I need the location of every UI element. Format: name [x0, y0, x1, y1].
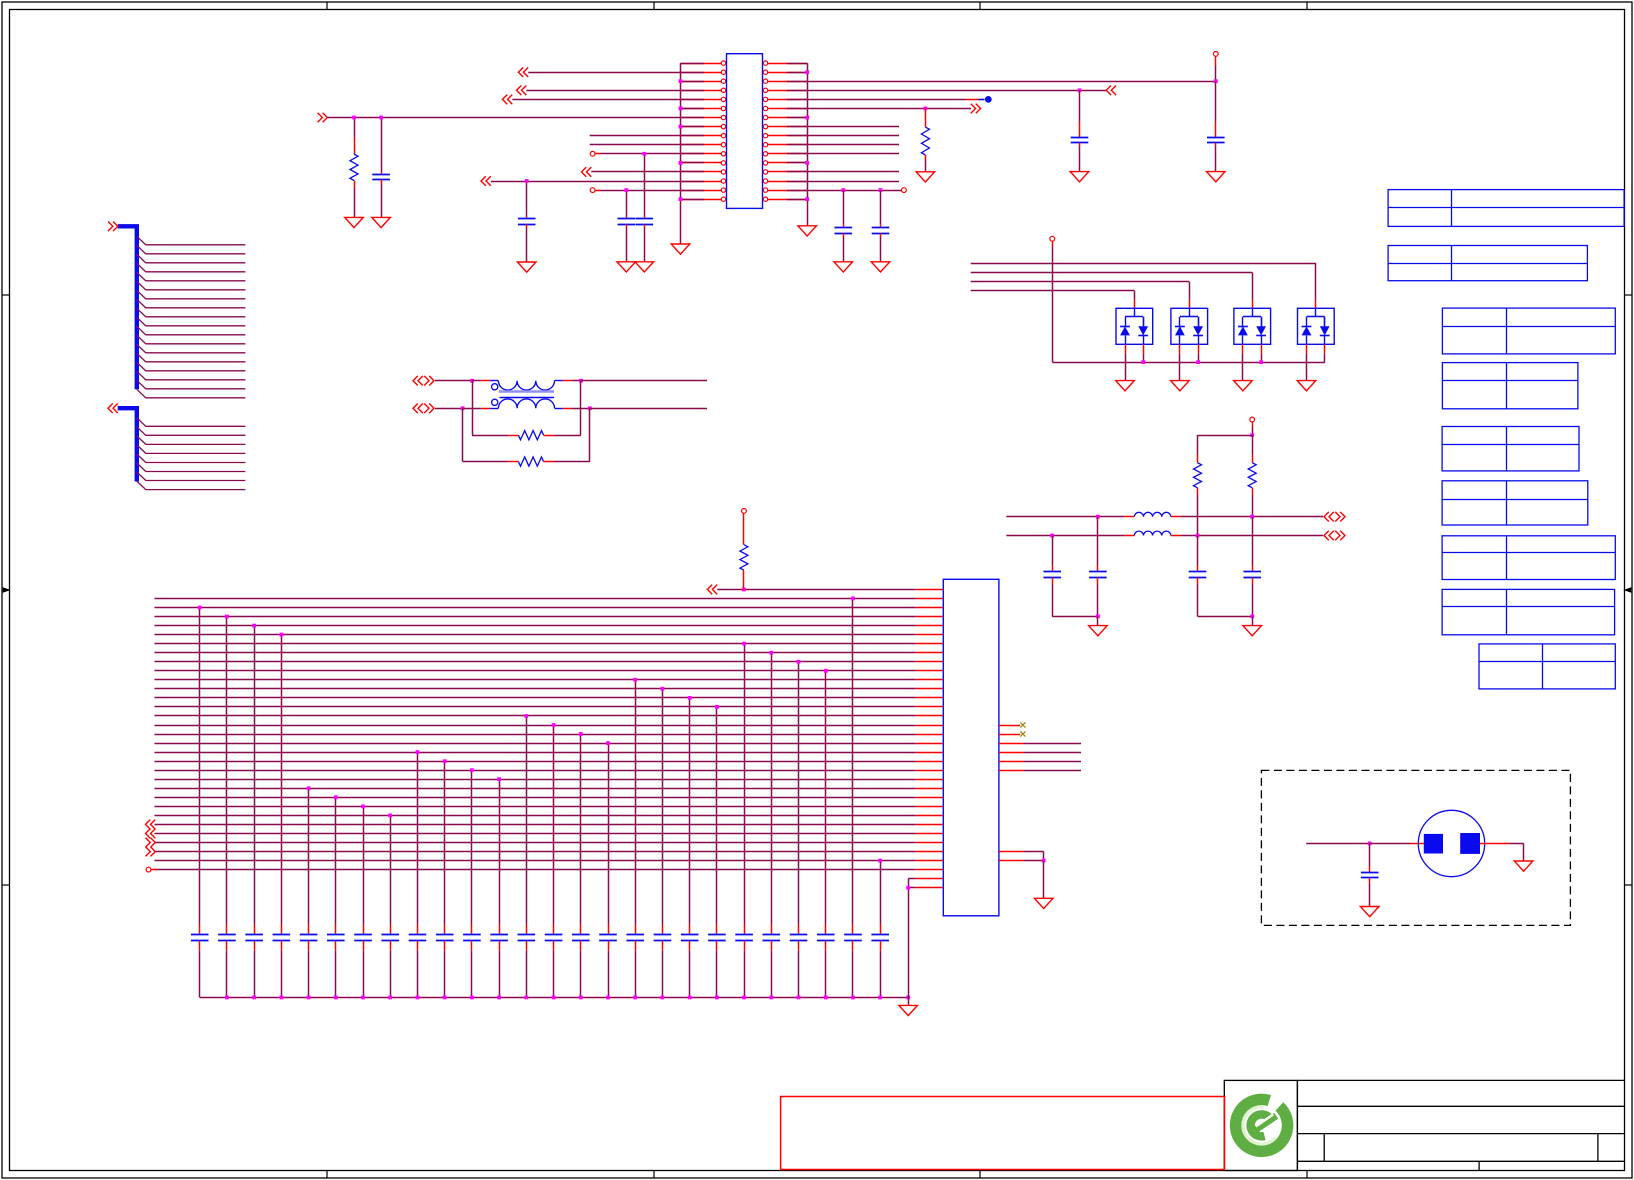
wire column 22	[771, 653, 773, 925]
resistor R7	[743, 513, 745, 544]
junction dot column 5 tap	[307, 786, 311, 790]
wire column 12	[499, 779, 501, 924]
wire column 16	[608, 743, 610, 924]
wire crystal left	[1306, 843, 1370, 845]
port P9 bus B1	[108, 222, 118, 232]
wire U2 row33	[908, 878, 916, 880]
port P7 input right	[1106, 86, 1116, 96]
wire C4 to ground	[644, 228, 646, 262]
pin header circle row15	[590, 188, 595, 193]
wire column 9	[417, 752, 419, 924]
wire column 11	[471, 770, 473, 924]
wire column 23	[798, 662, 800, 925]
ground right of U2	[1034, 898, 1053, 908]
capacitor C8	[880, 190, 882, 224]
pin header circle R7 top	[742, 509, 747, 514]
capacitor CC8	[381, 934, 399, 936]
capacitor C5	[1215, 81, 1217, 121]
transformer T1 primary winding	[490, 380, 498, 382]
transformer T1 phase dot secondary	[492, 399, 498, 405]
ground filter right	[1243, 626, 1262, 636]
port P11 bidir line1	[413, 376, 423, 386]
ground filter left	[1089, 626, 1108, 636]
wire R1 to ground	[354, 188, 356, 217]
wire U2 right outputs	[999, 744, 1081, 771]
wire row3 right long	[807, 81, 1216, 83]
junction dot row4 at C6	[1078, 88, 1082, 92]
wire U2 ground rail	[200, 997, 909, 999]
junction dot row6 at R2	[924, 107, 928, 111]
pin header circle row15 right	[902, 188, 907, 193]
wire U2 right gnd pins	[999, 851, 1024, 853]
wire filter VCC stub	[1252, 422, 1254, 427]
capacitor C3	[626, 190, 628, 215]
capacitor CC5	[300, 934, 318, 936]
pin header circle grid line32	[146, 867, 151, 872]
capacitor CC11	[463, 934, 481, 936]
capacitor CC14	[545, 934, 563, 936]
wire D3 right pin to rail	[1261, 344, 1263, 353]
diode pack D4	[1298, 308, 1335, 344]
junction dots row15 caps	[841, 188, 845, 192]
wire to ground right of U2	[1043, 861, 1045, 899]
wire diode input lines	[971, 263, 1316, 308]
port P3 input	[503, 95, 513, 105]
junction dot column 15 tap	[579, 732, 583, 736]
wire R2 to ground	[925, 160, 927, 172]
junction dot filter left gnd	[1096, 614, 1100, 618]
wire row6 right	[807, 108, 971, 110]
wire column 6	[335, 797, 337, 924]
wire row2 to U1	[528, 72, 704, 74]
capacitor C12	[1252, 517, 1254, 565]
capacitor C2	[526, 181, 528, 215]
wire column 10	[444, 761, 446, 924]
port P18 grid line29	[146, 838, 156, 848]
wire row5 to U1	[512, 99, 704, 101]
dashed option box	[1261, 770, 1570, 925]
junction dot T1 line2 left	[461, 406, 465, 410]
junction dot crystal	[1368, 842, 1372, 846]
capacitor CC23	[790, 934, 808, 936]
inductor L2	[1134, 531, 1171, 535]
junction dot column 14 tap	[552, 723, 556, 727]
wire row14 to U1	[491, 181, 704, 183]
pin header circle VCC1	[1213, 52, 1218, 57]
ground R2	[916, 172, 935, 182]
U1 right pin stubs with pin circles	[763, 61, 807, 202]
junction dots filter lines	[1096, 515, 1100, 519]
ground C4	[635, 262, 654, 272]
wire column 5	[308, 788, 310, 924]
wire gnd riser x908	[908, 879, 910, 998]
ground C8	[871, 262, 890, 272]
wire column 2	[226, 617, 228, 925]
wire row9 to U1	[590, 135, 704, 137]
junction dot column 17 tap	[633, 678, 637, 682]
resistor R2	[925, 108, 927, 127]
wire column 13	[526, 716, 528, 925]
inductor L1	[1134, 512, 1171, 516]
U2 body	[943, 579, 999, 916]
wire R6 to line1	[1252, 495, 1254, 517]
capacitor CC26	[871, 934, 889, 936]
junction dot T1 line1 left	[470, 379, 474, 383]
ground crystal right	[1514, 861, 1533, 871]
wire bus-join covers left	[681, 64, 705, 200]
junction dot D3 rail	[1259, 360, 1263, 364]
wire crystal right to ground	[1480, 843, 1510, 845]
table T5	[1442, 427, 1579, 471]
diode pack D2	[1171, 308, 1208, 344]
junction dot column 10 tap	[443, 759, 447, 763]
wire column 20	[716, 707, 718, 925]
capacitor CC10	[436, 934, 454, 936]
junction dot column 13 tap	[524, 714, 528, 718]
ground C13	[1360, 907, 1379, 917]
ground C1	[372, 217, 391, 227]
capacitor CC1	[191, 934, 209, 936]
ground D3	[1234, 381, 1253, 391]
port P8 output right	[971, 104, 981, 114]
wire VCC1 stub	[1215, 56, 1217, 66]
table T2	[1388, 246, 1587, 281]
junction dot column 11 tap	[470, 768, 474, 772]
capacitor C10	[1097, 517, 1099, 565]
junction dot column 20 tap	[715, 705, 719, 709]
wire column 14	[553, 725, 555, 925]
junction dot U2 right gnd	[1042, 859, 1046, 863]
table T1	[1388, 190, 1624, 227]
resistor R6	[1252, 435, 1254, 455]
wire R4 right leg	[554, 461, 590, 463]
port P6 input	[481, 176, 491, 186]
capacitor C11	[1197, 536, 1199, 566]
port P14 bidir filter line2	[1324, 531, 1334, 541]
capacitor CC15	[572, 934, 590, 936]
capacitor CC9	[409, 934, 427, 936]
diode pack D3	[1234, 308, 1271, 344]
wire bus-join covers right	[787, 64, 807, 200]
wire row7 from port to U1	[327, 117, 704, 119]
table T9	[1479, 644, 1615, 689]
ground C7	[834, 262, 853, 272]
wire U2 row1	[717, 589, 916, 591]
capacitor CC21	[735, 934, 753, 936]
wire U2 row34	[908, 887, 916, 889]
wire column 15	[580, 734, 582, 924]
capacitor C7	[843, 190, 845, 224]
capacitor CC17	[626, 934, 644, 936]
junction dot column 2 tap	[225, 615, 229, 619]
border mid arrow right	[1623, 587, 1631, 592]
port P2 input	[517, 86, 527, 96]
wire C5 to ground	[1215, 147, 1217, 172]
junction dot T1 line1 right	[579, 379, 583, 383]
wire C1 to ground	[381, 184, 383, 218]
wire row15 to U1	[595, 190, 600, 192]
crystal Y1	[1418, 810, 1484, 876]
table T8	[1442, 589, 1615, 634]
ground left bus	[671, 244, 690, 254]
wire column 19	[689, 698, 691, 925]
junction dot row3 pullup	[1214, 79, 1218, 83]
wire filter left gnd rail	[1052, 616, 1098, 618]
junction dot gnd riser row34	[906, 886, 910, 890]
wire D4 right pin to rail	[1324, 344, 1326, 353]
diode pack D1	[1116, 308, 1153, 344]
no-connect blue dot	[979, 99, 985, 101]
wire right bus stub to ground	[807, 199, 809, 226]
port P12 bidir line2	[413, 404, 423, 414]
junction dot D1 rail	[1141, 360, 1145, 364]
port P16 grid line27	[146, 820, 156, 830]
wire filter right gnd rail	[1198, 616, 1253, 618]
junction dot T1 line2 right	[588, 406, 592, 410]
capacitor CC13	[518, 934, 536, 936]
wire diode rail vertical	[1052, 241, 1054, 246]
wire column 17	[635, 680, 637, 925]
bus B1 harness	[118, 226, 137, 389]
wire column 8	[390, 815, 392, 924]
wire column 4	[281, 635, 283, 925]
port P15 input U2 row1	[707, 585, 717, 595]
junction dot row14 at C2	[525, 179, 529, 183]
wire T1 line2 left	[435, 408, 463, 410]
U2 left pin stubs	[916, 590, 944, 888]
junction dot column 6 tap	[334, 795, 338, 799]
junction dot column 9 tap	[416, 750, 420, 754]
junction dot column 24 tap	[824, 669, 828, 673]
U2 right no-connect pins	[999, 725, 1020, 727]
capacitor C6	[1079, 90, 1081, 121]
transformer T1 phase dot primary	[492, 384, 498, 390]
junction dot column 3 tap	[252, 624, 256, 628]
wire row10 to U1	[590, 144, 704, 146]
U1 left pin stubs with pin circles	[681, 61, 726, 202]
pin header circle filter VCC	[1250, 417, 1255, 422]
bus B2 harness	[118, 408, 137, 481]
pin header circle row11	[590, 151, 595, 156]
port P5 input	[582, 167, 592, 177]
bus B2 fanout wires	[137, 418, 246, 490]
wire D1 right pin to rail	[1143, 344, 1145, 353]
wire C6 to ground	[1079, 147, 1081, 172]
junction dots row7	[352, 116, 356, 120]
junction dot column 4 tap	[280, 633, 284, 637]
ground C6	[1070, 172, 1089, 182]
junction dot row11 at C4	[642, 152, 646, 156]
junction dots on U1 left bus	[679, 79, 683, 83]
ground C2	[517, 262, 536, 272]
junction dots on U1 right bus	[805, 70, 809, 74]
junction dot filter VCC	[1250, 433, 1254, 437]
junction dot column 19 tap	[688, 696, 692, 700]
transformer T1 secondary winding	[490, 408, 498, 410]
revision red box	[781, 1097, 1225, 1170]
capacitor CC18	[654, 934, 672, 936]
port P4 output	[318, 113, 328, 123]
wire T1 line1 right	[572, 380, 581, 382]
transformer T1 core light line	[499, 390, 554, 393]
wire column 21	[744, 644, 746, 925]
pin header circle diode rail	[1050, 236, 1055, 241]
ground C5	[1207, 172, 1226, 182]
table T4	[1442, 363, 1578, 409]
table T7	[1442, 536, 1615, 580]
resistor R3 parallel	[472, 381, 474, 436]
port P1 input	[518, 67, 528, 77]
junction dot row15 at C3	[624, 188, 628, 192]
wire column 18	[662, 689, 664, 925]
wire C8 to ground	[880, 237, 882, 262]
wire column 26	[880, 861, 882, 925]
wire T1 line1 left	[435, 380, 472, 382]
junction dot column 7 tap	[361, 805, 365, 809]
resistor R4 parallel	[462, 408, 464, 461]
capacitor CC20	[708, 934, 726, 936]
wire U2 grid horizontal lines	[155, 599, 916, 870]
junction dot column 1 tap	[198, 606, 202, 610]
junction dots ground rail	[225, 996, 882, 1000]
capacitor CC6	[327, 934, 345, 936]
capacitor C1	[381, 118, 383, 172]
ground C3	[617, 262, 636, 272]
wire D1 left pin to ground	[1125, 344, 1127, 353]
wire filter line1	[1006, 516, 1124, 518]
ground D1	[1116, 381, 1135, 391]
wire filter line2	[1006, 535, 1124, 537]
capacitor C4	[644, 154, 646, 216]
capacitor CC16	[599, 934, 617, 936]
wire rows 8-11 right stubs	[807, 127, 899, 154]
junction dot column 18 tap	[661, 687, 665, 691]
port P17 grid line28	[146, 829, 156, 839]
wire R3 right leg	[554, 435, 581, 437]
table T6	[1442, 481, 1588, 525]
ground right bus	[798, 226, 817, 236]
wire right bus vertical of U1	[807, 63, 809, 199]
company logo	[1236, 1099, 1288, 1151]
resistor R5	[1197, 435, 1199, 455]
capacitor CC2	[218, 934, 236, 936]
junction dot column 25 tap	[851, 597, 855, 601]
junction dot D2 rail	[1196, 360, 1200, 364]
wire left bus vertical of U1	[680, 63, 682, 199]
junction dot filter right gnd	[1250, 614, 1254, 618]
junction dot column 12 tap	[497, 777, 501, 781]
ground D4	[1297, 381, 1316, 391]
wire row4 right long	[807, 90, 1106, 92]
port P13 bidir filter line1	[1324, 512, 1334, 522]
border mid arrow left	[3, 587, 11, 592]
wire left bus stub to ground	[680, 199, 682, 244]
wire column 1	[199, 607, 201, 924]
resistor R1	[354, 118, 356, 137]
capacitor CC24	[817, 934, 835, 936]
junction dot column 21 tap	[742, 642, 746, 646]
capacitor CC7	[354, 934, 372, 936]
wire rows 13-14 right stubs	[807, 172, 899, 182]
wire row4 to U1	[526, 90, 704, 92]
capacitor CC25	[844, 934, 862, 936]
wire D4 left pin to ground	[1306, 344, 1308, 353]
junction dot column 16 tap	[606, 741, 610, 745]
wire row13 to U1	[591, 171, 704, 173]
wire filter pullup top	[1198, 435, 1253, 437]
title block outline	[1224, 1080, 1624, 1170]
junction dot column 23 tap	[797, 660, 801, 664]
bus B1 fanout wires	[137, 236, 246, 397]
wire diode ground rail	[1052, 362, 1325, 364]
ground U2 rail	[908, 997, 910, 1005]
wire C2 to ground	[526, 228, 528, 262]
wire column 7	[363, 806, 365, 924]
ground D2	[1171, 381, 1190, 391]
table T3	[1442, 308, 1615, 354]
capacitor C13	[1369, 843, 1371, 866]
wire row5 right	[807, 99, 966, 101]
wire C7 to ground	[843, 237, 845, 262]
port P19 grid line30	[146, 847, 156, 857]
wire D3 left pin to ground	[1242, 344, 1244, 353]
port P10 bus B2	[108, 403, 118, 413]
capacitor CC19	[681, 934, 699, 936]
wire column 25	[852, 598, 854, 924]
capacitor CC3	[245, 934, 263, 936]
junction dot column 8 tap	[388, 814, 392, 818]
capacitor CC4	[273, 934, 291, 936]
capacitor CC12	[490, 934, 508, 936]
junction dot row1 at R7	[742, 588, 746, 592]
wire row15 right	[807, 190, 901, 192]
capacitor CC22	[763, 934, 781, 936]
wire column 3	[254, 626, 256, 925]
capacitor C9	[1052, 536, 1054, 566]
junction dot column 26 tap	[878, 859, 882, 863]
wire D2 left pin to ground	[1179, 344, 1181, 353]
wire T1 line2 right	[572, 408, 590, 410]
wire C3 to ground	[626, 228, 628, 262]
transformer T1 core dark line	[500, 397, 555, 399]
ground R1	[345, 217, 364, 227]
wire row11 to U1	[595, 153, 600, 155]
wire D2 right pin to rail	[1198, 344, 1200, 353]
junction dot column 22 tap	[769, 651, 773, 655]
wire column 24	[825, 671, 827, 925]
U1 body	[727, 54, 763, 209]
wire R5 to line2	[1197, 495, 1199, 536]
